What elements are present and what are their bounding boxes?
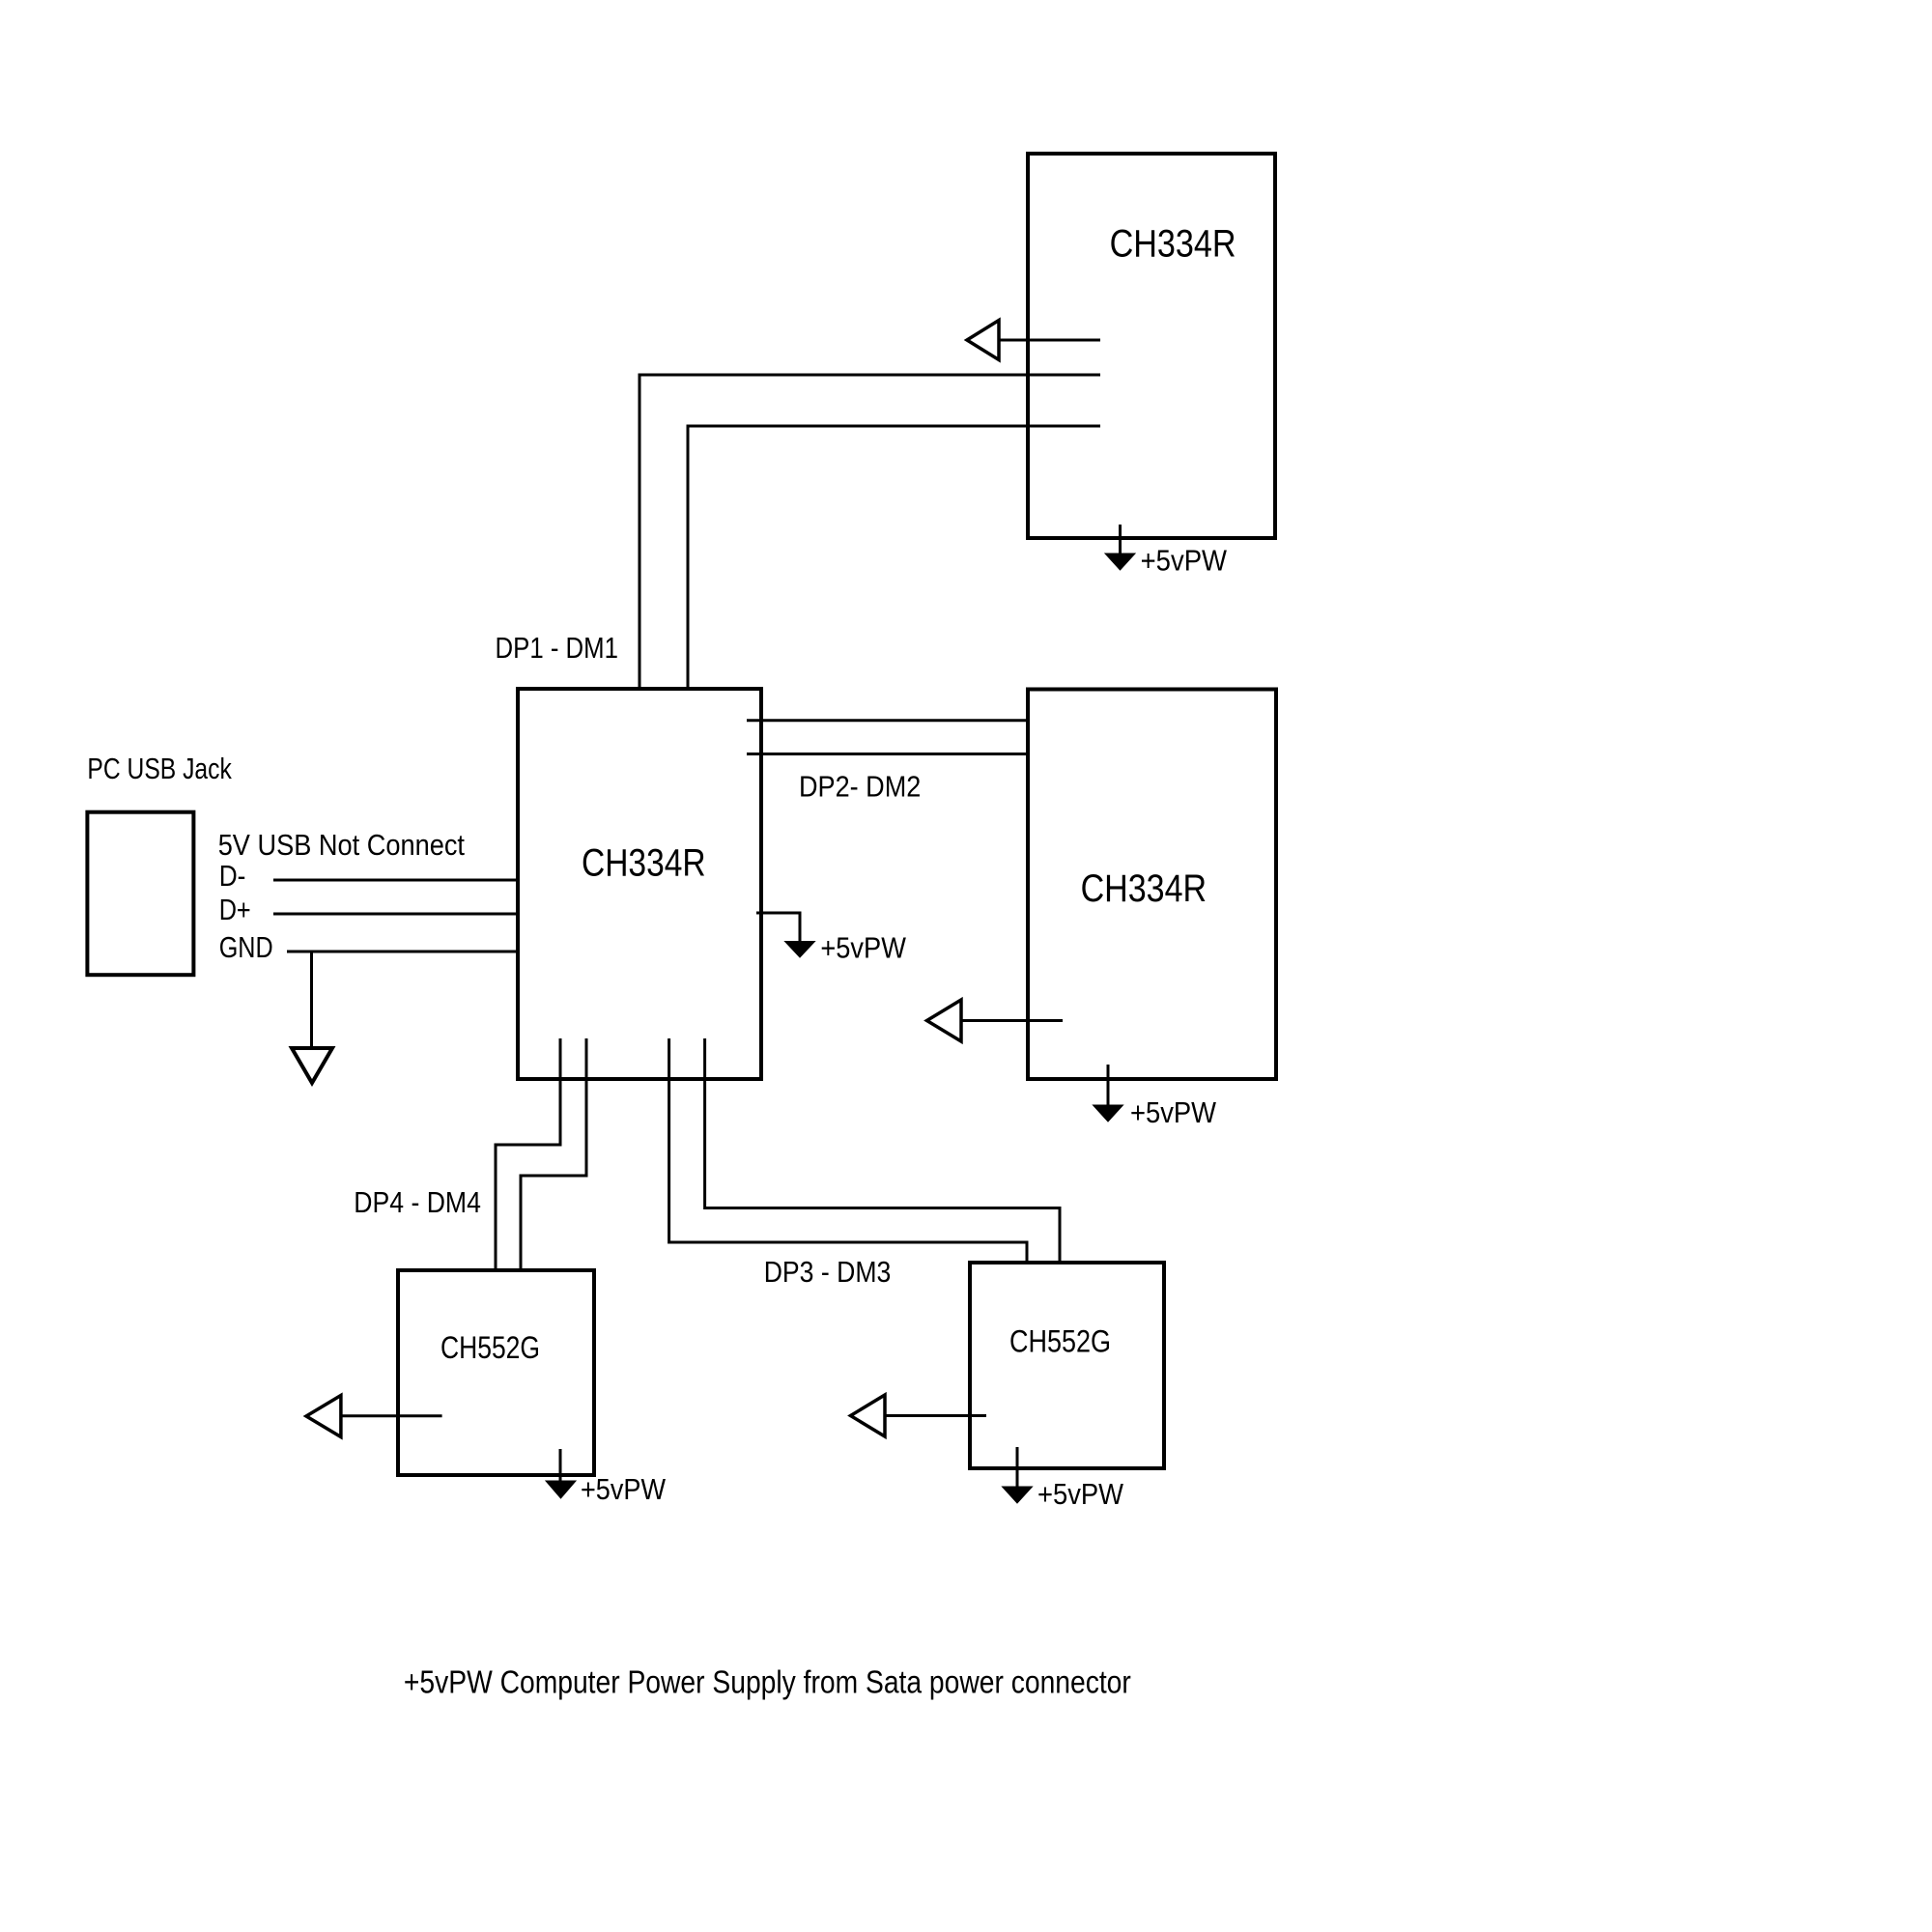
- svg-text:+5vPW: +5vPW: [1130, 1095, 1217, 1129]
- wire GND from J1 to U1: [287, 951, 518, 953]
- svg-text:CH552G: CH552G: [1009, 1324, 1111, 1359]
- U5 power pin wire: [1016, 1447, 1019, 1488]
- U3 power pin wire: [1107, 1065, 1110, 1106]
- wire DM3 net: U1 pin down-right into U5: [705, 1038, 1060, 1297]
- wire from U2 upstream arrow into box: [999, 339, 1100, 342]
- U1 power pin wire: [756, 913, 800, 942]
- downstream port arrow of U5 (open triangle): [851, 1395, 886, 1436]
- svg-text:+5vPW: +5vPW: [1037, 1477, 1124, 1511]
- wire DP3 net: U1 pin down-right into U5: [669, 1038, 1027, 1297]
- svg-text:5V USB Not Connect: 5V USB Not Connect: [218, 828, 466, 862]
- IC U1 CH334R hub (central box): [518, 689, 761, 1079]
- svg-text:D+: D+: [219, 893, 251, 926]
- IC U3 CH334R hub (middle right box): [1028, 690, 1276, 1080]
- svg-text:DP2- DM2: DP2- DM2: [799, 769, 921, 803]
- svg-text:DP3 - DM3: DP3 - DM3: [764, 1255, 892, 1289]
- wire DM1 net: U1 pin up and right into U2: [688, 426, 1100, 719]
- svg-text:CH552G: CH552G: [440, 1330, 540, 1365]
- svg-text:D-: D-: [219, 859, 246, 893]
- wire from U5 arrow into box: [885, 1414, 986, 1417]
- wire DM4 net: U1 pin down-left into U4: [521, 1038, 586, 1289]
- svg-text:PC USB Jack: PC USB Jack: [87, 752, 232, 785]
- wire D+ from J1 to U1: [273, 913, 518, 916]
- wire DP2 net: U1 right edge into U3: [747, 719, 1061, 722]
- svg-text:GND: GND: [219, 930, 273, 964]
- wire from U4 arrow into box: [341, 1414, 442, 1417]
- U2 power pin wire: [1119, 525, 1122, 554]
- wire from U3 upstream arrow into box: [961, 1019, 1063, 1022]
- connector J1 PC USB Jack box: [87, 812, 193, 976]
- svg-text:+5vPW: +5vPW: [581, 1472, 667, 1506]
- downstream port arrow of U4 (open triangle): [306, 1396, 341, 1437]
- IC U4 CH552G (bottom left box): [398, 1270, 594, 1475]
- upstream port arrow of U2 (open triangle): [967, 321, 999, 360]
- ground symbol (open triangle): [292, 1048, 332, 1083]
- wire DM2 net: U1 right edge into U3: [747, 753, 1061, 755]
- svg-text:+5vPW Computer Power Supply fr: +5vPW Computer Power Supply from Sata po…: [404, 1665, 1131, 1701]
- U5 +5vPW power symbol (filled down arrow): [1003, 1487, 1033, 1503]
- svg-text:+5vPW: +5vPW: [820, 931, 906, 965]
- svg-text:DP4 - DM4: DP4 - DM4: [354, 1185, 481, 1219]
- svg-text:CH334R: CH334R: [582, 841, 706, 884]
- IC U5 CH552G (bottom right box): [970, 1263, 1164, 1468]
- wire DP1 net: U1 pin up and right into U2: [639, 375, 1100, 719]
- wire DP4 net: U1 pin down-left into U4: [496, 1038, 560, 1289]
- U4 +5vPW power symbol (filled down arrow): [546, 1481, 576, 1498]
- U3 +5vPW power symbol (filled down arrow): [1094, 1105, 1123, 1122]
- wire D- from J1 to U1: [273, 879, 518, 882]
- IC U2 CH334R hub (top right box): [1028, 154, 1275, 538]
- svg-text:+5vPW: +5vPW: [1141, 544, 1228, 578]
- U4 power pin wire: [559, 1449, 562, 1482]
- U1 +5vPW power symbol (filled down arrow): [785, 942, 815, 958]
- U2 +5vPW power symbol (filled down arrow): [1105, 554, 1135, 570]
- svg-text:CH334R: CH334R: [1110, 223, 1236, 266]
- svg-text:DP1 - DM1: DP1 - DM1: [496, 631, 619, 665]
- wire GND drop to ground symbol: [310, 952, 313, 1046]
- upstream port arrow of U3 (open triangle): [927, 1000, 962, 1041]
- svg-text:CH334R: CH334R: [1081, 867, 1207, 910]
